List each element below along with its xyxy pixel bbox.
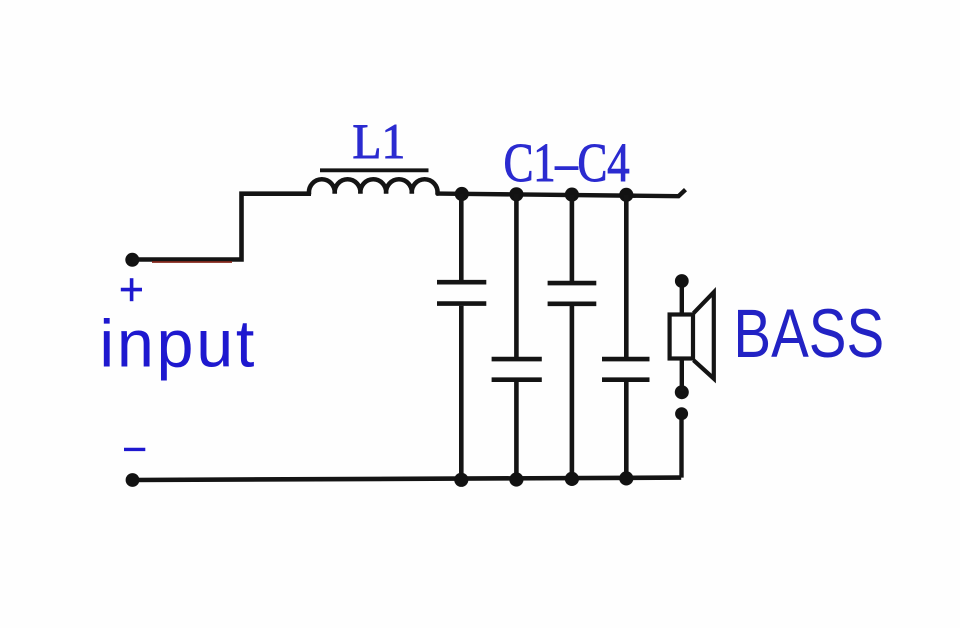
node speaker lead lower terminal	[675, 407, 688, 420]
capacitor C3	[548, 195, 597, 479]
svg-text:C1–C4: C1–C4	[504, 132, 630, 193]
svg-text:L1: L1	[352, 113, 405, 169]
wire speaker drop to bottom rail	[679, 418, 683, 478]
node bottom junction 1	[454, 473, 468, 487]
node bottom junction 4	[619, 471, 633, 485]
node top junction 3	[565, 188, 579, 202]
node top junction 4	[619, 188, 633, 202]
inductor core line	[320, 168, 429, 172]
wire speaker top lead	[680, 285, 684, 316]
svg-text:input: input	[99, 308, 257, 382]
wire bottom rail	[133, 478, 682, 480]
node top junction 1	[455, 187, 469, 201]
wire top rail	[438, 190, 686, 197]
label plus sign	[121, 278, 142, 301]
node speaker plus terminal	[675, 274, 689, 288]
speaker horn	[694, 292, 714, 378]
node top junction 2	[509, 187, 523, 201]
inductor L1	[309, 179, 438, 193]
wire speaker bottom lead	[680, 358, 684, 392]
speaker driver rectangle	[670, 315, 693, 359]
svg-text:BASS: BASS	[733, 296, 884, 372]
capacitor C1	[437, 194, 486, 480]
wire red marking under input wire	[152, 261, 232, 263]
label minus sign	[124, 448, 145, 451]
wire input plus to inductor (step)	[133, 194, 312, 260]
capacitor C2	[492, 194, 542, 479]
node input plus terminal	[125, 253, 139, 267]
node speaker minus terminal	[675, 385, 689, 399]
node bottom junction 3	[565, 472, 579, 486]
capacitor C4	[602, 195, 650, 479]
node input minus terminal	[126, 473, 140, 487]
node bottom junction 2	[509, 472, 523, 486]
